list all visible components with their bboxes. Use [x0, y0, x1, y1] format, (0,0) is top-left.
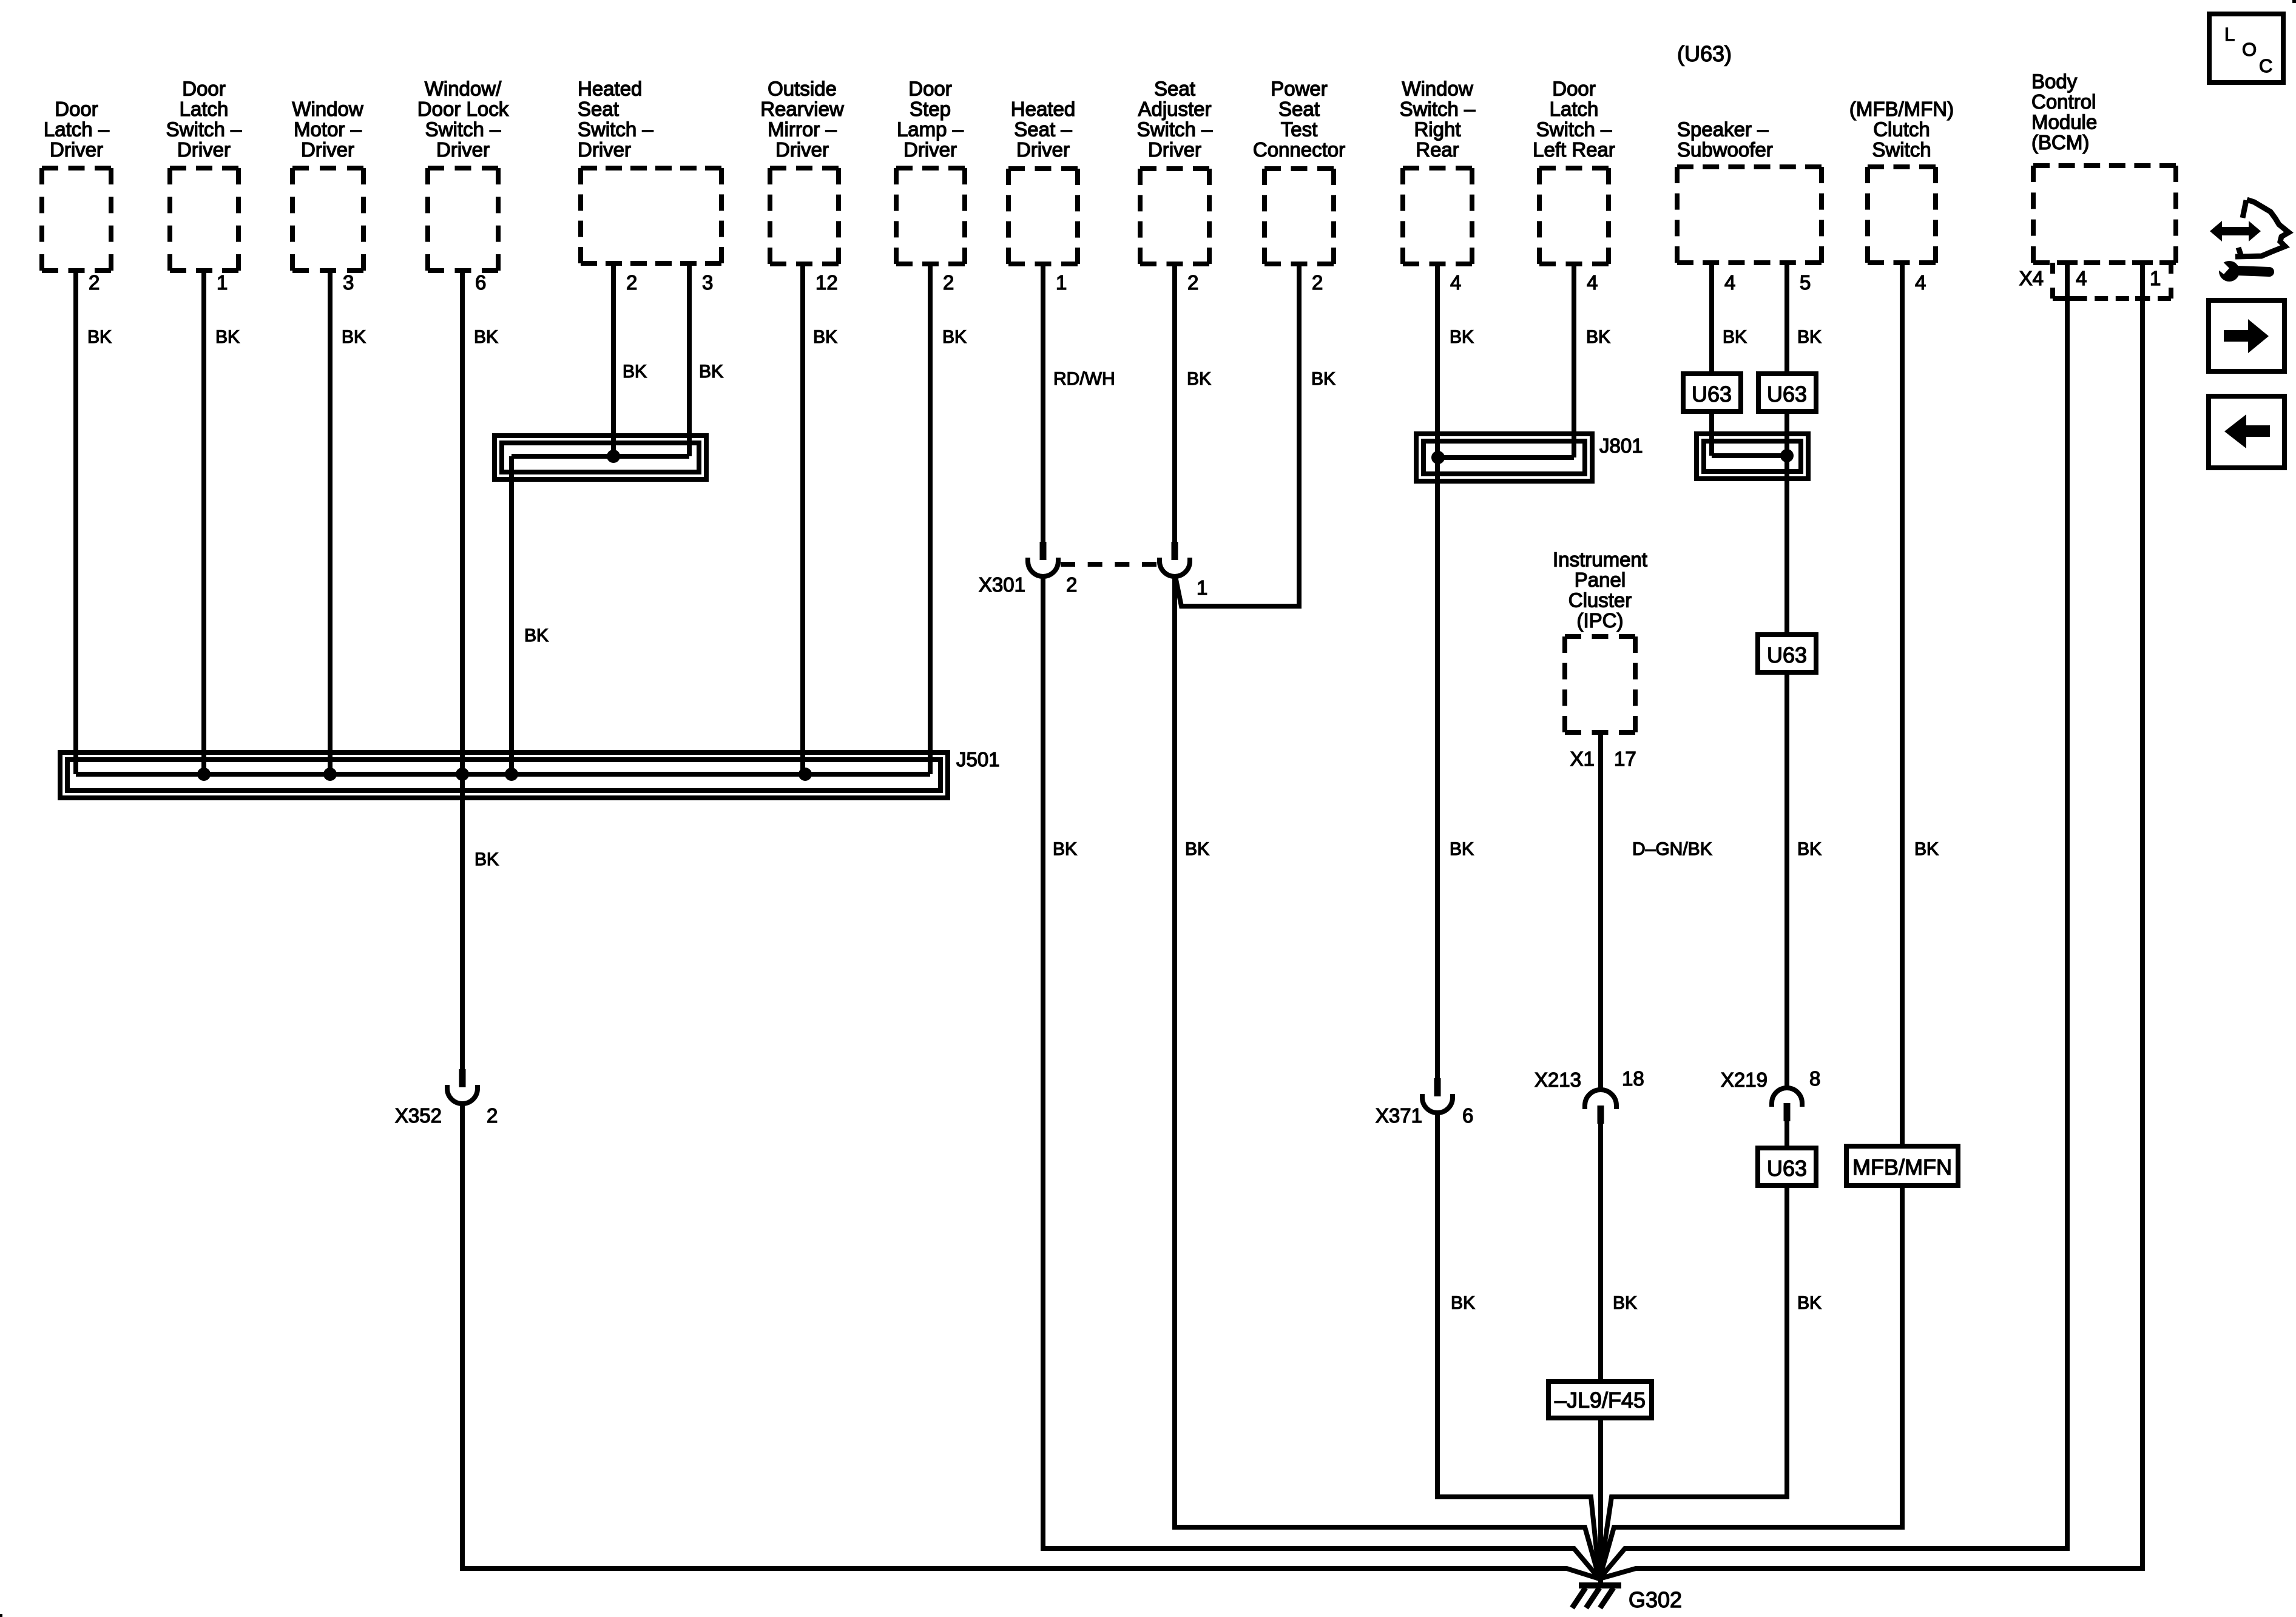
svg-text:2: 2 — [1066, 573, 1077, 596]
svg-text:Control: Control — [2031, 90, 2096, 113]
svg-text:6: 6 — [1462, 1104, 1473, 1127]
svg-text:J501: J501 — [956, 748, 1000, 771]
svg-text:Seat: Seat — [1154, 78, 1195, 100]
svg-text:G302: G302 — [1629, 1587, 1682, 1612]
svg-text:Door: Door — [55, 98, 98, 120]
svg-text:X301: X301 — [979, 573, 1025, 596]
svg-text:BK: BK — [1185, 839, 1209, 859]
svg-text:Driver: Driver — [775, 138, 829, 161]
svg-text:BK: BK — [813, 327, 837, 347]
svg-text:Window/: Window/ — [425, 78, 502, 100]
svg-text:Rearview: Rearview — [760, 98, 844, 120]
svg-text:BK: BK — [1797, 327, 1822, 347]
svg-text:1: 1 — [217, 271, 228, 294]
svg-text:Driver: Driver — [1148, 138, 1201, 161]
svg-text:X219: X219 — [1721, 1068, 1768, 1091]
svg-text:12: 12 — [815, 271, 838, 294]
svg-text:U63: U63 — [1767, 1156, 1807, 1181]
svg-text:Window: Window — [292, 98, 363, 120]
svg-text:5: 5 — [1800, 271, 1811, 294]
svg-text:4: 4 — [2076, 267, 2087, 289]
svg-text:4: 4 — [1724, 271, 1735, 294]
svg-text:Heated: Heated — [1011, 98, 1075, 120]
svg-text:2: 2 — [1187, 271, 1198, 294]
svg-text:MFB/MFN: MFB/MFN — [1852, 1155, 1952, 1180]
svg-text:BK: BK — [1187, 369, 1211, 389]
svg-text:Power: Power — [1271, 78, 1328, 100]
svg-text:Latch: Latch — [1550, 98, 1599, 120]
svg-text:3: 3 — [343, 271, 354, 294]
svg-text:Cluster: Cluster — [1568, 589, 1632, 612]
svg-text:Step: Step — [910, 98, 951, 120]
svg-text:Switch –: Switch – — [578, 118, 653, 141]
svg-text:Speaker –: Speaker – — [1677, 118, 1769, 141]
svg-text:Heated: Heated — [578, 78, 642, 100]
svg-text:BK: BK — [1053, 839, 1077, 859]
svg-text:Driver: Driver — [436, 138, 490, 161]
svg-text:8: 8 — [1809, 1067, 1820, 1090]
svg-text:BK: BK — [215, 327, 240, 347]
svg-text:Driver: Driver — [578, 138, 631, 161]
svg-text:1: 1 — [2150, 267, 2161, 289]
svg-text:X4: X4 — [2019, 267, 2044, 289]
svg-text:Switch: Switch — [1872, 138, 1931, 161]
svg-text:Instrument: Instrument — [1553, 549, 1647, 571]
svg-text:BK: BK — [342, 327, 366, 347]
svg-text:Left Rear: Left Rear — [1533, 138, 1615, 161]
svg-text:Motor –: Motor – — [294, 118, 362, 141]
svg-text:BK: BK — [1914, 839, 1939, 859]
svg-text:Lamp –: Lamp – — [897, 118, 964, 141]
svg-text:U63: U63 — [1692, 382, 1732, 407]
svg-text:2: 2 — [487, 1104, 498, 1127]
svg-text:BK: BK — [942, 327, 967, 347]
svg-text:Body: Body — [2031, 70, 2078, 93]
svg-text:6: 6 — [475, 271, 486, 294]
svg-text:Door: Door — [182, 78, 226, 100]
svg-text:X213: X213 — [1535, 1068, 1581, 1091]
svg-text:Switch –: Switch – — [1536, 118, 1612, 141]
svg-text:Seat –: Seat – — [1014, 118, 1072, 141]
svg-text:Panel: Panel — [1575, 569, 1626, 591]
svg-text:17: 17 — [1614, 748, 1636, 770]
svg-text:Driver: Driver — [50, 138, 103, 161]
svg-text:X371: X371 — [1376, 1104, 1422, 1127]
svg-text:Driver: Driver — [177, 138, 231, 161]
svg-text:Adjuster: Adjuster — [1138, 98, 1211, 120]
svg-text:BK: BK — [1613, 1293, 1637, 1313]
svg-text:Module: Module — [2031, 111, 2097, 133]
svg-text:BK: BK — [1797, 839, 1822, 859]
svg-text:J801: J801 — [1599, 434, 1643, 457]
svg-text:Rear: Rear — [1416, 138, 1459, 161]
svg-text:Door: Door — [908, 78, 952, 100]
svg-text:Door Lock: Door Lock — [417, 98, 509, 120]
svg-text:2: 2 — [626, 271, 637, 294]
svg-text:BK: BK — [623, 362, 647, 382]
svg-text:Connector: Connector — [1253, 138, 1345, 161]
svg-text:BK: BK — [474, 327, 498, 347]
svg-text:2: 2 — [89, 271, 100, 294]
svg-text:4: 4 — [1450, 271, 1461, 294]
svg-text:–JL9/F45: –JL9/F45 — [1555, 1388, 1646, 1413]
svg-text:BK: BK — [1311, 369, 1335, 389]
svg-text:Driver: Driver — [301, 138, 354, 161]
svg-text:BK: BK — [1450, 839, 1474, 859]
svg-text:Test: Test — [1281, 118, 1318, 141]
svg-text:BK: BK — [1797, 1293, 1822, 1313]
svg-text:O: O — [2242, 39, 2257, 60]
svg-text:C: C — [2259, 55, 2272, 76]
svg-text:Driver: Driver — [903, 138, 957, 161]
svg-text:BK: BK — [87, 327, 112, 347]
svg-text:3: 3 — [702, 271, 713, 294]
svg-text:BK: BK — [1723, 327, 1747, 347]
svg-text:X352: X352 — [395, 1104, 442, 1127]
svg-text:Clutch: Clutch — [1873, 118, 1930, 141]
svg-text:Mirror –: Mirror – — [768, 118, 837, 141]
svg-text:Seat: Seat — [578, 98, 619, 120]
svg-text:Switch –: Switch – — [425, 118, 501, 141]
svg-text:Switch –: Switch – — [1137, 118, 1213, 141]
svg-text:1: 1 — [1197, 576, 1207, 599]
svg-text:(BCM): (BCM) — [2031, 131, 2089, 154]
svg-text:BK: BK — [474, 849, 499, 869]
svg-text:Latch: Latch — [180, 98, 229, 120]
svg-text:U63: U63 — [1767, 643, 1807, 667]
svg-text:Switch –: Switch – — [1400, 98, 1476, 120]
svg-text:2: 2 — [943, 271, 954, 294]
svg-text:U63: U63 — [1767, 382, 1807, 407]
svg-text:4: 4 — [1915, 271, 1926, 294]
svg-text:Latch –: Latch – — [44, 118, 110, 141]
svg-text:Right: Right — [1414, 118, 1460, 141]
svg-text:2: 2 — [1312, 271, 1323, 294]
svg-text:(U63): (U63) — [1677, 41, 1732, 66]
svg-text:(MFB/MFN): (MFB/MFN) — [1849, 98, 1954, 120]
svg-text:BK: BK — [699, 362, 723, 382]
svg-text:Seat: Seat — [1278, 98, 1320, 120]
svg-text:BK: BK — [1586, 327, 1610, 347]
svg-text:Door: Door — [1552, 78, 1596, 100]
svg-text:Switch –: Switch – — [166, 118, 242, 141]
svg-text:RD/WH: RD/WH — [1053, 369, 1115, 389]
svg-text:D–GN/BK: D–GN/BK — [1632, 839, 1712, 859]
svg-text:Window: Window — [1402, 78, 1473, 100]
svg-text:BK: BK — [1450, 327, 1474, 347]
svg-text:Driver: Driver — [1016, 138, 1070, 161]
svg-text:L: L — [2224, 24, 2235, 45]
svg-text:1: 1 — [1056, 271, 1067, 294]
svg-text:BK: BK — [1451, 1293, 1475, 1313]
svg-text:BK: BK — [524, 626, 549, 646]
svg-text:X1: X1 — [1570, 748, 1595, 770]
svg-text:Outside: Outside — [768, 78, 837, 100]
svg-text:18: 18 — [1622, 1067, 1644, 1090]
svg-text:4: 4 — [1587, 271, 1598, 294]
svg-text:Subwoofer: Subwoofer — [1677, 138, 1773, 161]
svg-text:(IPC): (IPC) — [1577, 609, 1624, 632]
